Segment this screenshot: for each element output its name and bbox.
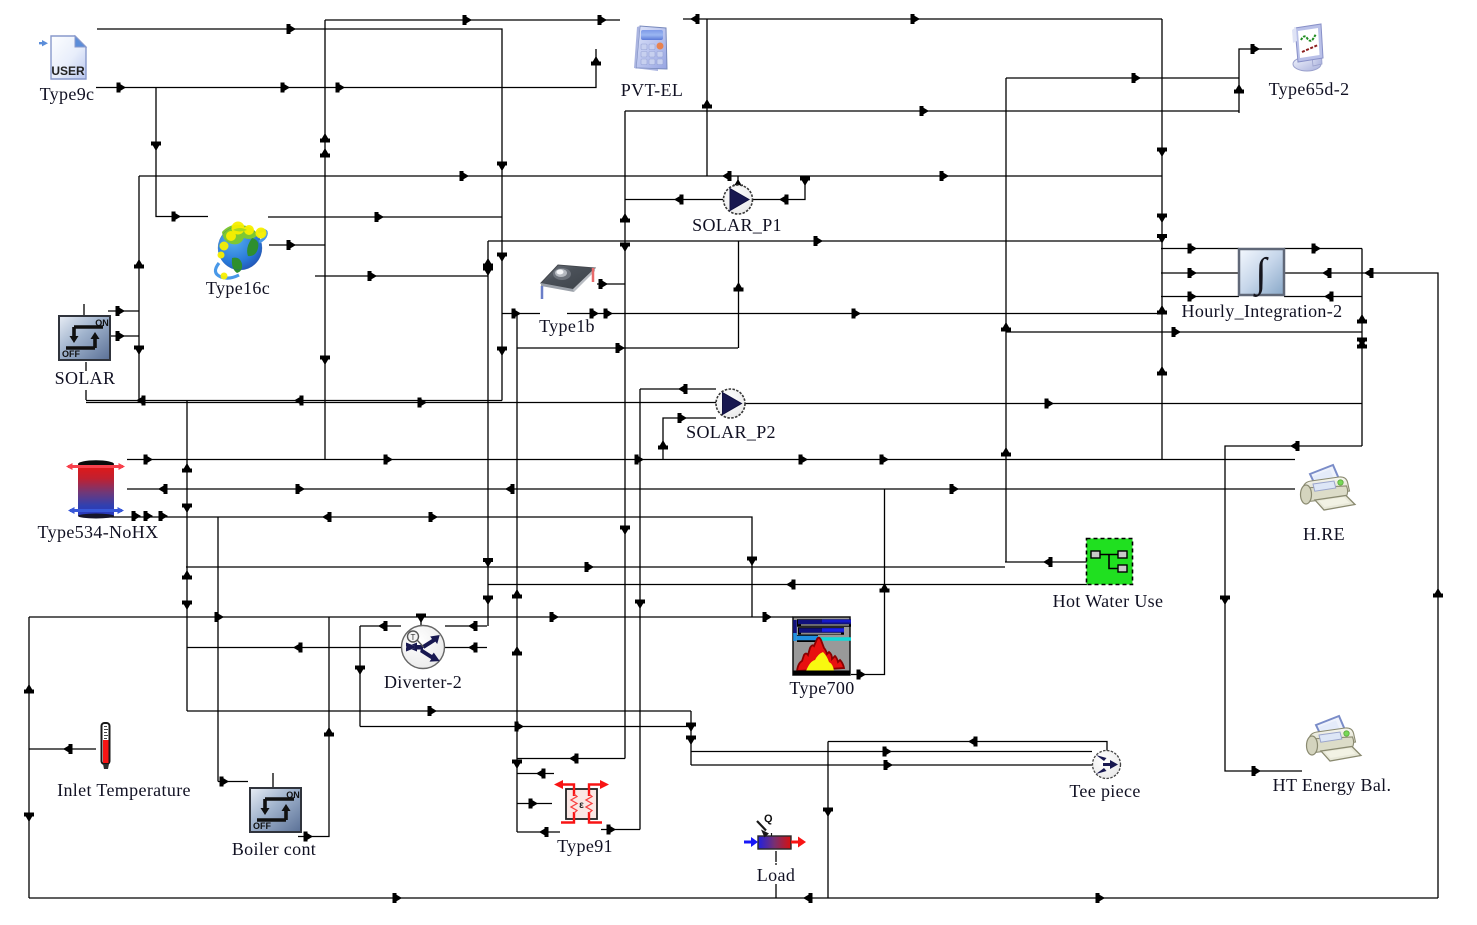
wire Type9c drop to Type16c: [156, 88, 208, 217]
wire H489 long: [127, 488, 1295, 490]
wire int out3: [1284, 296, 1362, 298]
wire V707: [706, 19, 708, 176]
wire V691: [690, 711, 692, 765]
wire SOLAR out2: [108, 335, 139, 337]
wire boilercont stub: [272, 773, 274, 788]
wire V1162: [1161, 19, 1163, 459]
svg-text:H.RE: H.RE: [1303, 524, 1345, 544]
wire H459 long: [127, 459, 1295, 461]
svg-text:Hourly_Integration-2: Hourly_Integration-2: [1182, 301, 1343, 321]
component Tee piece: [1093, 751, 1121, 779]
wire H562 hotwater: [1005, 561, 1087, 563]
svg-text:ε: ε: [579, 800, 584, 811]
wire pump2 right run: [745, 403, 1362, 405]
wire H647 left: [187, 647, 401, 649]
svg-text:Inlet Temperature: Inlet Temperature: [57, 780, 191, 800]
wire H517: [97, 517, 752, 617]
component H.RE (printer): [1301, 465, 1356, 510]
component Type534-NoHX (storage tank): [66, 460, 125, 518]
wire diverter right-mid: [445, 647, 487, 649]
component Type1b (solar collector): [541, 265, 595, 299]
wire int in3: [1161, 296, 1239, 298]
component Type65d-2 (online plotter): [1292, 24, 1323, 71]
component Hot Water Use (load profile): [1087, 539, 1133, 585]
component Type91 (heat exchanger): [554, 780, 609, 823]
svg-text:SOLAR_P1: SOLAR_P1: [692, 215, 782, 235]
component SOLAR (on/off controller): [59, 316, 110, 360]
component Type9c (user data file): [39, 36, 86, 79]
wire H176: [139, 175, 1162, 177]
svg-text:Diverter-2: Diverter-2: [384, 672, 462, 692]
svg-text:HT Energy Bal.: HT Energy Bal.: [1273, 775, 1392, 795]
wire pump1 stub: [737, 176, 739, 186]
wire Type9c out2: [96, 49, 596, 88]
wire pump2 top elbow: [640, 388, 716, 390]
component Hourly_Integration-2 (integrator): [1239, 249, 1284, 297]
svg-text:PVT-EL: PVT-EL: [621, 80, 683, 100]
wire type91 bot right: [601, 829, 640, 831]
wire H313 stub: [502, 313, 540, 315]
wire V217: [217, 517, 219, 782]
svg-text:T: T: [411, 633, 416, 642]
wire V329: [298, 617, 329, 837]
wire V139: [138, 176, 140, 401]
wire Type9c out1 top: [97, 29, 502, 401]
wire int out2 big loop: [1284, 273, 1438, 898]
wire Type16c out mid: [269, 244, 325, 246]
svg-text:OFF: OFF: [253, 821, 271, 831]
svg-text:SOLAR: SOLAR: [55, 368, 116, 388]
wire H898 bottom: [29, 897, 1438, 899]
wire pump2 bottom elbow: [663, 418, 716, 459]
svg-text:Type16c: Type16c: [206, 278, 270, 298]
wire V517: [516, 314, 518, 833]
wire V738 pump1 drop: [738, 241, 740, 348]
component Boiler cont (on/off controller): [250, 788, 301, 832]
wire load stub lower: [775, 884, 777, 898]
wire collector out: [597, 283, 625, 285]
wire monitor riser: [1239, 49, 1282, 113]
wire H711: [187, 710, 691, 712]
wire int in1: [1161, 248, 1239, 250]
wire int out1: [1284, 248, 1362, 250]
wire V828: [827, 742, 829, 899]
component Inlet Temperature (thermometer): [102, 723, 110, 769]
svg-text:Boiler cont: Boiler cont: [232, 839, 316, 859]
wire type700 loop: [851, 489, 885, 675]
wire H400: [86, 400, 502, 402]
wire type91 in3: [517, 831, 560, 833]
svg-text:Type9c: Type9c: [40, 84, 95, 104]
wire pump1 left: [625, 199, 723, 201]
wire SOLAR out1: [108, 310, 139, 312]
component Type16c (radiation processor globe): [215, 222, 266, 280]
wire inlet temp wire: [29, 748, 96, 750]
wire V488: [487, 241, 489, 626]
wire V625: [624, 111, 626, 759]
wire H759: [517, 758, 625, 760]
wire diverter left-top: [360, 625, 401, 627]
wire SOLAR stub bottom b: [85, 390, 87, 400]
svg-text:Q: Q: [764, 813, 773, 825]
svg-text:Type700: Type700: [789, 678, 854, 698]
svg-text:Type91: Type91: [557, 836, 613, 856]
wire H332: [1006, 331, 1362, 333]
wire H726: [360, 726, 691, 728]
wire Type16c out right: [268, 216, 502, 218]
wire int in2: [1161, 272, 1239, 274]
svg-text:Type534-NoHX: Type534-NoHX: [38, 522, 159, 542]
wire type91 in2: [517, 803, 552, 805]
wire H402 to pump2: [86, 402, 716, 404]
wire type91 in1: [517, 773, 554, 775]
component SOLAR_P2 (pump): [716, 389, 745, 418]
wire H752 tee: [691, 751, 1092, 753]
svg-text:SOLAR_P2: SOLAR_P2: [686, 422, 776, 442]
wire V29 left loop: [28, 617, 30, 898]
wire load stub upper: [775, 851, 777, 862]
wire H348: [517, 347, 738, 349]
svg-text:Hot Water Use: Hot Water Use: [1053, 591, 1164, 611]
wire V1006: [1005, 78, 1007, 562]
wire V187: [186, 401, 188, 711]
wire H617: [29, 616, 793, 618]
wire H313 collector run: [567, 313, 1161, 315]
wire V325 top to PVT-EL: [325, 19, 620, 21]
wire SOLAR stub bottom a: [85, 362, 87, 371]
wire PVT-EL right run: [683, 18, 1162, 20]
wire V1362: [1361, 249, 1363, 447]
wire V640: [639, 389, 641, 830]
wire H446: [1225, 446, 1362, 771]
svg-text:Type65d-2: Type65d-2: [1269, 79, 1350, 99]
wire SOLAR stub top: [83, 304, 85, 316]
component Type700 (boiler): [793, 617, 851, 675]
wire V360: [359, 626, 361, 727]
wire Type16c out3: [315, 275, 488, 277]
component SOLAR_P1 (pump): [724, 185, 753, 214]
component HT Energy Bal. (printer): [1307, 716, 1362, 761]
wire pump1 right: [753, 176, 805, 200]
wire H567: [186, 566, 1005, 568]
svg-text:USER: USER: [51, 64, 85, 78]
svg-text:Load: Load: [757, 865, 795, 885]
component Diverter-2 (flow diverter): [402, 626, 445, 669]
wire H742 tee top: [828, 742, 1107, 752]
svg-text:OFF: OFF: [62, 349, 80, 359]
wire H765 tee: [691, 764, 1093, 766]
component Load (heat load): [744, 813, 806, 865]
wire H78: [1006, 77, 1239, 79]
wire H781 to boilercont: [218, 781, 248, 783]
wire H241: [488, 240, 1162, 242]
wire H584 hotwater: [488, 584, 1087, 586]
wire diverter stub: [420, 617, 422, 625]
svg-text:Tee piece: Tee piece: [1069, 781, 1140, 801]
wire diverter right-top: [445, 625, 487, 627]
wire H111 run: [625, 110, 1239, 112]
component PVT-EL (equation calculator): [634, 26, 667, 71]
svg-text:Type1b: Type1b: [539, 316, 595, 336]
wire V325: [324, 20, 326, 459]
